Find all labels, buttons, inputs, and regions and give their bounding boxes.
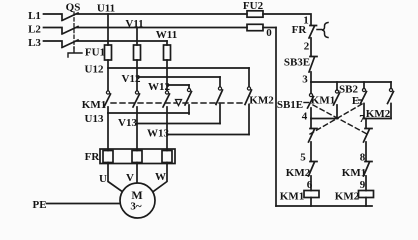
linkage triangle: [176, 100, 182, 106]
wire W12: [167, 60, 189, 85]
contactor KM1 auxiliary NO contact: [336, 82, 338, 90]
svg-text:FU1: FU1: [85, 46, 105, 58]
wire control left rail: [275, 28, 277, 207]
contactor KM2 main contact 2: [219, 77, 221, 87]
wire L3 to W11: [77, 40, 167, 42]
svg-text:2: 2: [304, 41, 310, 53]
wire KM1 coil to rail: [310, 198, 312, 207]
svg-text:W11: W11: [156, 29, 177, 41]
contactor KM2 interlock NC contact: [309, 162, 318, 191]
interlock dashed SB2 to SB2-NC: [310, 104, 362, 134]
svg-text:U12: U12: [85, 64, 104, 76]
contactor KM1 main contact W: [166, 85, 168, 91]
relay FR heater element W: [162, 151, 172, 163]
wire U11: [107, 14, 109, 45]
svg-text:SB1E: SB1E: [277, 99, 303, 111]
svg-text:6: 6: [307, 179, 313, 191]
svg-text:PE: PE: [32, 199, 46, 211]
wire L2: [44, 28, 63, 33]
svg-text:V: V: [126, 172, 134, 184]
pushbutton SB1 NC contact in KM2 branch: [364, 119, 373, 162]
relay FR heater element U: [103, 151, 113, 163]
motor lead V: [136, 163, 138, 184]
wire L1: [44, 14, 63, 19]
wire V12: [137, 60, 220, 77]
pushbutton SB1 NO contact: [310, 82, 312, 94]
svg-text:QS: QS: [66, 1, 81, 13]
pushbutton SB2 NO contact: [363, 82, 365, 89]
pushbutton SB2 NC contact in KM1 branch: [309, 119, 318, 162]
wire V13: [137, 123, 220, 125]
motor lead U: [108, 163, 124, 193]
switch QS pole 1 blade: [62, 13, 78, 21]
svg-text:U: U: [99, 173, 107, 185]
svg-text:0: 0: [266, 27, 272, 39]
fuse FU1 phase W: [164, 45, 171, 60]
svg-text:W13: W13: [147, 128, 170, 140]
wire node 3 bus: [311, 81, 391, 83]
contactor KM1 main contact V: [136, 77, 138, 91]
svg-text:4: 4: [302, 111, 308, 123]
relay FR NC contact: [309, 26, 317, 56]
svg-text:9: 9: [360, 179, 366, 191]
svg-text:KM2: KM2: [366, 108, 391, 120]
mechanical linkage KM1-KM2 dashed: [111, 102, 243, 104]
wire node 4: [311, 118, 337, 120]
svg-text:V11: V11: [125, 18, 143, 30]
pushbutton SB3 NC contact: [309, 57, 317, 83]
svg-text:KM2: KM2: [335, 190, 360, 202]
svg-text:SB2: SB2: [339, 83, 358, 95]
svg-text:V13: V13: [118, 117, 137, 129]
wire L2 to FU2: [77, 27, 247, 29]
wire W to FR: [166, 135, 168, 151]
switch QS pole 2 blade: [62, 27, 78, 35]
svg-text:3: 3: [302, 73, 308, 85]
interlock dashed SB1 to SB1-NC: [313, 105, 367, 134]
contactor KM2 auxiliary NO contact: [390, 82, 392, 89]
contactor KM2 main contact 3: [248, 68, 250, 87]
svg-text:KM2: KM2: [286, 167, 311, 179]
svg-text:E: E: [352, 95, 359, 107]
fuse FU1 phase U: [105, 45, 112, 60]
svg-text:U13: U13: [85, 113, 104, 125]
wire V to FR: [136, 124, 138, 151]
svg-text:FR: FR: [292, 24, 308, 36]
switch QS pole 3 blade: [62, 40, 78, 48]
relay FR thermal symbol: [317, 23, 328, 38]
svg-text:L2: L2: [28, 23, 41, 35]
relay FR heater element V: [132, 151, 142, 163]
contactor KM2 coil: [359, 191, 374, 198]
svg-text:V12: V12: [122, 73, 141, 85]
fuse FU1 phase V: [134, 45, 141, 60]
svg-text:FR: FR: [85, 151, 101, 163]
motor lead W: [152, 163, 168, 193]
fuse FU2 upper: [247, 11, 263, 17]
wire L3: [44, 41, 63, 46]
svg-text:KM1: KM1: [311, 94, 335, 106]
wire U to FR: [107, 113, 109, 151]
wire U13: [108, 112, 189, 114]
contactor KM1 main contact U: [107, 68, 109, 91]
svg-text:L1: L1: [28, 10, 41, 22]
switch QS handle: [68, 48, 82, 57]
wire PE: [47, 203, 121, 205]
wire to node 0: [263, 27, 276, 29]
svg-text:3~: 3~: [130, 200, 142, 212]
wire node 7: [364, 118, 391, 120]
svg-text:KM1: KM1: [82, 99, 106, 111]
wire W11: [166, 41, 168, 45]
svg-text:KM1: KM1: [342, 167, 366, 179]
svg-text:5: 5: [300, 151, 306, 163]
wire L1 to control rail: [263, 14, 311, 25]
wire U12: [108, 60, 249, 68]
contactor KM2 main contact 1: [188, 85, 190, 88]
pushbutton SB2 dash: [359, 99, 363, 101]
svg-text:KM1: KM1: [280, 190, 304, 202]
svg-text:W: W: [155, 171, 166, 183]
wire V11: [136, 28, 138, 46]
motor M1: [120, 183, 155, 218]
svg-text:KM2: KM2: [249, 94, 274, 106]
fuse FU2 lower: [247, 24, 263, 30]
switch QS linkage: [73, 12, 75, 48]
wire KM2 coil to rail: [365, 198, 367, 207]
svg-text:L3: L3: [28, 37, 41, 49]
svg-text:U11: U11: [97, 2, 115, 14]
wire control bottom rail: [276, 205, 372, 207]
contactor KM1 coil: [304, 191, 319, 198]
pushbutton SB1 dash: [304, 102, 309, 104]
wire L1 to FU2: [77, 13, 247, 15]
svg-text:SB3E: SB3E: [284, 56, 310, 68]
relay FR heater box: [100, 149, 175, 164]
contactor KM1 interlock NC contact: [364, 162, 373, 191]
wire W13: [167, 134, 249, 136]
